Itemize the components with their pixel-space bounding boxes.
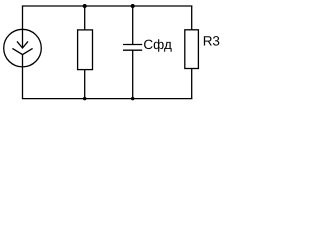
current source I1 circle: [4, 29, 42, 67]
current source arrowhead chevron 1: [17, 41, 28, 48]
resistor R body: [78, 30, 93, 70]
wire capacitor branch bottom: [132, 50, 134, 98]
wire capacitor branch top: [132, 6, 134, 45]
svg-text:Сфд: Сфд: [143, 37, 172, 52]
node dot bottom resistor junction: [83, 97, 86, 100]
wire R3 branch top: [191, 6, 193, 30]
wire resistor R branch top: [84, 6, 86, 30]
wire bottom rail: [22, 98, 192, 100]
capacitor Сфд top plate: [123, 44, 142, 46]
capacitor Сфд bottom plate: [123, 49, 142, 51]
wire left branch vertical (current source lead): [22, 6, 24, 30]
node dot top capacitor junction: [131, 4, 135, 8]
wire R3 branch bottom: [191, 69, 193, 100]
wire resistor R branch bottom: [84, 70, 86, 99]
current source arrow shaft: [22, 29, 24, 48]
svg-text:R3: R3: [203, 34, 220, 49]
current source arrowhead chevron 2: [12, 48, 32, 54]
node dot bottom capacitor junction: [131, 97, 134, 100]
resistor R3 body: [185, 30, 199, 69]
wire top rail: [22, 5, 192, 7]
node dot top resistor junction: [83, 4, 87, 8]
current source lower shaft to bottom rail: [22, 55, 24, 99]
